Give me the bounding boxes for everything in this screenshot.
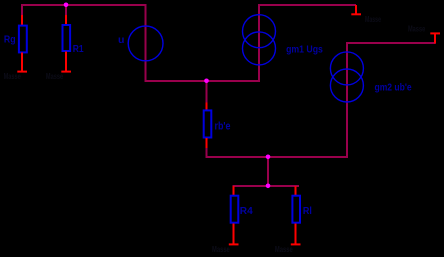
svg-text:R1: R1 xyxy=(73,43,84,55)
resistor Rl body xyxy=(292,196,300,223)
svg-text:Rl: Rl xyxy=(303,205,312,217)
svg-text:Masse: Masse xyxy=(275,244,293,254)
svg-text:gm1 Ugs: gm1 Ugs xyxy=(286,43,323,55)
resistor R4 lead top xyxy=(233,186,235,196)
resistor Rg lead bottom xyxy=(21,53,23,72)
svg-text:Masse: Masse xyxy=(408,24,425,34)
wire net3 horizontal y186 xyxy=(233,185,300,187)
resistor rb'e body xyxy=(204,110,212,137)
resistor rb'e lead bottom xyxy=(206,138,208,148)
resistor Rl lead bottom xyxy=(295,224,297,245)
wire junction vertical x268 xyxy=(267,156,269,187)
wire rb'e top vertical xyxy=(206,80,208,103)
svg-text:Masse: Masse xyxy=(4,71,21,81)
current source gm2 circle upper xyxy=(330,52,363,85)
wire net1 top-left horizontal xyxy=(21,4,147,6)
wire net2 horizontal y81 xyxy=(145,80,261,82)
resistor Rg lead top xyxy=(21,15,23,26)
ground bar under R1 xyxy=(61,71,71,73)
svg-text:Masse: Masse xyxy=(46,71,63,81)
junction node y157 xyxy=(266,155,271,160)
wire through gm2 vertical xyxy=(346,42,348,158)
wire net4 top-right horizontal xyxy=(258,4,356,6)
wire through source u vertical xyxy=(145,4,147,82)
ground bar under Rg xyxy=(17,71,27,73)
ground bar under Rl xyxy=(291,243,301,245)
current source gm1 circle upper xyxy=(243,15,276,48)
ground stem upward right of gm2 xyxy=(434,34,436,44)
svg-text:u: u xyxy=(118,34,124,46)
wire net3 horizontal y157 xyxy=(206,156,349,158)
resistor Rg body xyxy=(19,26,27,53)
resistor R4 body xyxy=(231,196,239,223)
junction node at R1 top xyxy=(64,3,69,8)
resistor R4 lead bottom xyxy=(233,224,235,245)
wire through gm1 vertical xyxy=(258,4,260,82)
junction node at rb'e top xyxy=(204,79,209,84)
svg-text:Masse: Masse xyxy=(365,14,381,24)
ground stem top right of gm1 xyxy=(355,5,357,14)
wire net5 horizontal y43 xyxy=(346,42,436,44)
voltage source u circle xyxy=(128,26,163,61)
resistor rb'e lead top xyxy=(206,103,208,111)
resistor Rl lead top xyxy=(295,186,297,196)
current source gm1 circle lower xyxy=(243,32,276,65)
current source gm2 circle lower xyxy=(330,69,363,102)
svg-text:Masse: Masse xyxy=(212,244,230,254)
ground bar under R4 xyxy=(229,243,239,245)
svg-text:rb'e: rb'e xyxy=(215,120,231,132)
svg-text:Rg: Rg xyxy=(4,34,16,46)
wire Rg vertical stub xyxy=(21,4,23,16)
svg-text:R4: R4 xyxy=(240,205,253,217)
resistor R1 lead bottom xyxy=(65,52,67,72)
svg-text:gm2 ub'e: gm2 ub'e xyxy=(375,81,412,93)
resistor R1 lead top xyxy=(65,15,67,26)
ground bar near gm1 xyxy=(351,13,361,15)
wire rb'e bottom vertical xyxy=(206,147,208,158)
resistor R1 body xyxy=(63,25,71,51)
junction node y186 xyxy=(266,184,271,189)
ground bar above right of gm2 xyxy=(430,32,440,34)
wire R1 vertical stub xyxy=(65,4,67,16)
